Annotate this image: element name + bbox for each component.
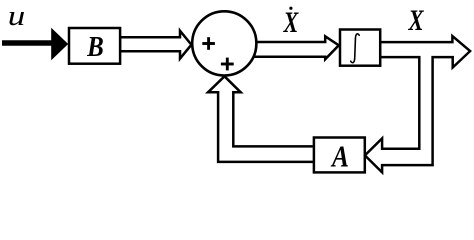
block B (69, 28, 120, 64)
solid input arrowhead (51, 28, 68, 60)
plus sign (input +) (202, 37, 215, 50)
svg-text:B: B (86, 30, 104, 62)
svg-text:X: X (283, 5, 300, 39)
integrator block U1 (340, 30, 380, 66)
wire: solid input arrow shaft into B (2, 40, 53, 45)
wire: block arrow B to summing junction (120, 31, 191, 59)
svg-text:X: X (408, 3, 425, 37)
wire: output block arrow from integrator with down branch, feedback right segment and arrowhead into A (365, 36, 470, 172)
wire: block arrow summing junction to integrator (254, 36, 339, 59)
summing junction circle (192, 11, 256, 75)
integral symbol (351, 34, 360, 63)
wire: feedback left segment with up block arrow into summing junction (208, 76, 314, 162)
svg-text:A: A (330, 140, 349, 174)
plus sign (feedback +) (221, 58, 234, 71)
block A (314, 138, 365, 173)
svg-text:u: u (8, 0, 25, 31)
